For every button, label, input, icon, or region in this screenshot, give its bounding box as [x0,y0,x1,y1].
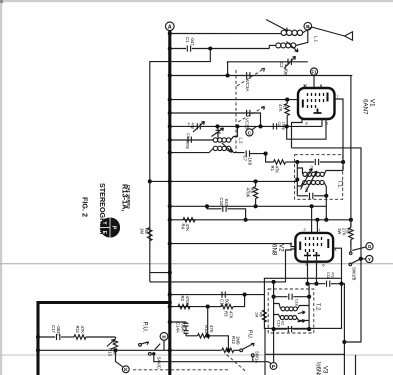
trimmer C2 [279,57,296,76]
L2 arrow [222,143,232,152]
resistor R2 470K [178,296,190,309]
svg-text:47K: 47K [185,224,190,232]
svg-text:L.1: L.1 [314,36,319,43]
resistor R4 [181,218,196,232]
svg-text:C: C [248,130,252,136]
resistor R8 27K [337,220,353,247]
T1 top capacitor [293,159,346,170]
svg-text:7: 7 [337,95,339,99]
node Y [366,255,373,262]
solid box around T2 [264,278,341,328]
resistor R1 [270,160,286,173]
border frame top [0,0,393,2]
svg-text:C2: C2 [279,62,284,68]
T2 winding 1 [274,304,310,311]
svg-text:C14A: C14A [176,322,181,333]
PYE logo [100,218,120,238]
svg-text:½6N8: ½6N8 [315,362,322,375]
node A [166,22,175,31]
wire bus C1 row [170,48,186,50]
svg-text:C4: C4 [186,133,190,138]
svg-text:P: P [110,226,116,230]
label V1 [362,99,376,115]
resistor R7 [278,104,290,116]
T2 right vertical [308,297,310,329]
V1 pin1 wire [320,85,322,88]
svg-text:47K: 47K [228,311,233,319]
svg-text:C7: C7 [243,156,248,162]
svg-text:·02: ·02 [281,320,285,325]
svg-text:C10: C10 [219,198,224,206]
switch S4A [139,342,162,369]
T2 top capacitor [272,294,312,306]
T2 winding 1 arrow [298,311,305,314]
T1 winding 1 [297,168,343,176]
tube V2 [290,228,337,268]
screen line long [292,148,362,343]
svg-text:T.1.: T.1. [336,180,342,189]
wire V1 grid2 row [170,99,298,101]
node H [160,333,168,351]
L1 tuning arrow [266,20,288,31]
V2 plate wire right [333,248,341,278]
capacitor C14A C14B [176,322,189,336]
capacitor C1 [185,37,195,52]
T1 bottom tap [325,196,327,220]
V2 pin1 wire [316,220,318,233]
svg-text:T.2.: T.2. [315,303,321,312]
T2 winding 2 arrow [298,320,306,323]
svg-text:C1: C1 [185,37,190,43]
wire R10 row [186,335,198,337]
transformer T1 [295,155,343,200]
svg-text:6: 6 [323,264,325,268]
svg-text:C17: C17 [51,325,56,333]
svg-text:FIG. 2: FIG. 2 [81,197,90,217]
resistor R14 on box edge [255,310,267,322]
capacitor C5 [185,133,191,149]
wire gnd row2 [38,349,222,351]
wire det row [170,294,265,296]
svg-text:4-40p: 4-40p [284,64,289,76]
wire C14 row [170,321,186,323]
wire VC3B row [170,113,261,126]
capacitor C7 [243,150,253,165]
wire osc top row [227,61,308,63]
T1 arrows [301,169,312,190]
svg-text:F1: F1 [312,69,318,74]
switch contact 2 [349,257,366,266]
trimmer VC3B [238,107,265,130]
resistor R5 [140,228,153,241]
wire T1 to V2 [311,206,313,233]
svg-text:·0047: ·0047 [180,322,185,334]
wire B to antenna [306,27,345,36]
svg-text:2: 2 [304,228,306,232]
node on rail [148,179,152,183]
svg-text:6AN7: 6AN7 [362,99,369,115]
switch SW1A [240,343,259,363]
T1 right vertical [342,162,344,171]
svg-text:VC3B: VC3B [245,118,250,129]
svg-text:VC3A: VC3A [245,80,250,91]
svg-text:3: 3 [290,242,292,246]
pot R13 [107,337,118,356]
svg-text:R11: R11 [75,326,80,334]
svg-text:C18: C18 [295,299,299,306]
wire R8b row [170,306,208,308]
svg-text:R1: R1 [270,166,275,172]
fold line 2 [0,354,393,356]
capacitor C3 [273,122,285,130]
wire C7 to R1 [250,153,266,155]
dashed gang bottom [133,369,228,371]
node C [246,126,257,136]
T1 left vertical [295,162,299,196]
wire bus to L1 [170,33,281,35]
wire IF bottom row [170,205,326,207]
svg-text:470K: 470K [245,188,250,198]
antenna [345,32,353,40]
border corner mark [0,0,3,3]
svg-text:H: H [162,334,166,340]
svg-text:P.U.: P.U. [247,330,253,339]
svg-text:1M0: 1M0 [236,336,241,345]
label V3 [315,362,328,375]
resistor R10 [198,325,229,350]
wire C17 row [38,336,55,338]
coil L1 [281,30,305,35]
trimmer VC4b [212,126,224,138]
svg-text:C6: C6 [277,122,281,127]
thick ground rail bottom-left [38,303,170,375]
svg-text:6N8: 6N8 [271,244,278,256]
capacitor C16 [220,292,230,308]
title text block [98,183,132,235]
svg-text:1M: 1M [255,312,259,317]
svg-text:C9: C9 [305,188,309,193]
V2 cathode wires [305,256,318,297]
coil L1 secondary [276,43,296,48]
svg-text:47K: 47K [278,104,283,112]
pot R12 [222,336,241,352]
svg-text:V3: V3 [322,366,328,374]
svg-text:R2: R2 [180,296,185,302]
L1b arrow [287,42,299,52]
V3 stage box [264,328,266,375]
svg-text:1: 1 [319,228,321,232]
label V2 [271,244,285,256]
svg-text:47K: 47K [209,325,214,333]
V1 plate wire [335,99,344,162]
svg-text:470K: 470K [185,296,190,306]
coil L2 winding 1 [213,126,237,142]
trimmer VC3A [237,68,265,91]
svg-text:C11: C11 [326,272,330,278]
svg-text:R13-1A,: R13-1A, [121,184,130,212]
junction [168,31,172,35]
svg-text:P.U.: P.U. [142,322,148,333]
bottom right verticals [342,284,362,375]
svg-text:R12: R12 [231,336,236,344]
wire R3 junction drop [207,307,209,336]
svg-text:SW1/B: SW1/B [352,267,357,281]
fold line 1 [0,263,393,265]
svg-text:R3: R3 [224,311,229,317]
svg-text:G: G [368,244,372,249]
T2 winding 2 [274,315,310,321]
svg-text:R4: R4 [181,224,186,230]
wire secondary left [269,45,276,48]
svg-text:V1: V1 [369,99,376,107]
wire L2 top row [170,139,213,141]
svg-text:R13: R13 [108,348,113,356]
svg-text:K: K [124,367,128,373]
V1 pin F1 stem [313,75,315,88]
capacitor C11 [308,272,344,287]
transformer T2 [268,289,320,333]
wire C1 to corner [192,48,269,50]
T1 winding 2 [297,180,326,195]
svg-text:1W: 1W [337,228,342,235]
heater line [350,76,352,228]
node F1 [310,68,317,75]
svg-text:·047: ·047 [190,37,195,46]
switch contact 1 [349,240,366,255]
wire IF grid row [170,125,322,127]
wire grid row [170,75,352,77]
svg-text:·0047: ·0047 [56,325,61,337]
dashed link [227,355,248,373]
gang dashed line [235,70,237,152]
svg-text:180p: 180p [185,141,189,149]
wire y181 [150,180,298,182]
resistor R11 [61,326,116,340]
wire secondary right to B [296,30,308,45]
node B [304,22,312,30]
svg-text:V2: V2 [278,244,285,252]
border frame left [0,0,2,375]
svg-text:40p: 40p [191,123,196,130]
svg-text:1K0: 1K0 [247,158,252,166]
T2 left vertical [273,282,275,329]
main bus wire [168,31,171,375]
left rail wire [150,49,211,282]
node G [366,243,373,250]
svg-text:C19: C19 [277,320,281,327]
node K [116,350,130,373]
trimmer VC4a [186,122,204,133]
tube V1 [298,84,339,126]
capacitor C17 [51,325,61,340]
V1 bottom pin wires [292,119,303,148]
svg-text:8: 8 [306,122,308,126]
wire V2 grid row [170,244,296,247]
svg-text:·047: ·047 [224,198,229,207]
svg-text:A: A [168,24,172,30]
capacitor C10 [205,198,246,220]
V1 pin 10 wire [304,85,306,88]
svg-text:47K: 47K [80,326,85,334]
T2 bottom capacitor [272,320,312,332]
rail to bus wire [150,272,170,274]
resistor R3 [208,295,245,319]
node P [270,329,277,370]
svg-text:S4A/C: S4A/C [156,357,161,369]
wire bottom mid [154,354,271,364]
svg-text:47p: 47p [331,272,335,278]
T1 bottom capacitor [297,188,328,199]
wire rail lower row [150,249,296,282]
svg-text:47K: 47K [275,166,280,174]
svg-text:Y: Y [368,257,371,262]
svg-text:L.2: L.2 [239,138,244,145]
coil L2 winding 2 [170,146,245,152]
resistor R9 [245,181,258,206]
wire AVC row [170,219,351,221]
svg-text:1M: 1M [140,228,145,234]
